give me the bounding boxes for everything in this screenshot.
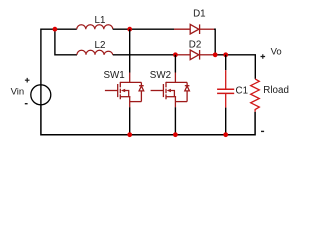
Vin plus mark	[25, 78, 30, 83]
svg-text:Vo: Vo	[271, 47, 282, 58]
node split junction dot	[53, 27, 58, 32]
wire: SW2 drain column	[174, 55, 176, 73]
resistor Rload	[251, 79, 260, 112]
wire: SW1 source to rail	[129, 107, 131, 135]
svg-text:SW2: SW2	[150, 70, 171, 81]
wire: C1 bottom column	[225, 108, 227, 135]
wire: Rload bottom column, bottom rail and Vin bottom column	[41, 105, 255, 135]
inductor L2	[77, 50, 113, 55]
svg-text:D1: D1	[193, 8, 206, 19]
node D1-D2 junction dot	[213, 52, 218, 57]
wire: line2 middle segment	[113, 54, 176, 56]
node SW1 source rail dot	[127, 132, 132, 137]
wire: Vin top column and line1 left segment	[41, 29, 77, 85]
wire: line1 middle segment	[113, 28, 174, 30]
node C1 rail dot	[223, 132, 228, 137]
inductor L1	[77, 25, 113, 30]
svg-text:C1: C1	[236, 85, 249, 96]
node SW1 drain dot on line1	[127, 27, 132, 32]
wire: SW1 drain column	[129, 29, 131, 72]
transistor SW1	[105, 73, 144, 108]
svg-text:SW1: SW1	[104, 70, 125, 81]
wire: split vertical and line2 left segment	[55, 29, 77, 55]
svg-text:L2: L2	[95, 40, 106, 51]
Vo plus mark	[261, 54, 266, 59]
svg-text:Vin: Vin	[11, 86, 25, 97]
node C1 tap junction dot	[223, 52, 228, 57]
svg-text:L1: L1	[95, 15, 106, 26]
wire: through Vin circle	[40, 85, 42, 105]
diode D1	[174, 24, 215, 34]
Vo minus mark	[261, 130, 264, 132]
wire: D1 cathode downcomer	[214, 29, 215, 55]
diode D2	[176, 50, 216, 60]
source Vin	[31, 85, 51, 105]
capacitor C1	[217, 70, 234, 107]
transistor SW2	[151, 73, 190, 108]
node SW2 source rail dot	[173, 132, 178, 137]
node SW2 drain dot on line2	[173, 52, 178, 57]
wire: C1 top column	[225, 55, 227, 70]
svg-text:Rload: Rload	[263, 85, 289, 96]
svg-text:D2: D2	[189, 40, 202, 51]
Vin minus mark	[25, 103, 28, 105]
wire: line2 output segment and corner down to Rload	[215, 55, 255, 79]
wire: SW2 source to rail	[174, 107, 176, 135]
